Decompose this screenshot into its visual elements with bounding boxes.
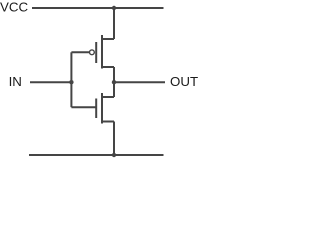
transistor M2 NMOS xyxy=(96,93,114,124)
junction VCC node xyxy=(112,6,116,10)
svg-text:IN: IN xyxy=(9,74,22,89)
wire VCC rail xyxy=(32,7,164,9)
wire gate bus vertical xyxy=(70,52,72,107)
wire NMOS gate lead xyxy=(71,106,95,108)
wire PMOS gate lead xyxy=(71,51,89,53)
wire IN lead xyxy=(30,81,72,83)
transistor M1 PMOS xyxy=(90,35,115,69)
wire PMOS source to VCC rail xyxy=(113,8,115,39)
svg-text:VCC: VCC xyxy=(0,0,28,15)
wire OUT lead xyxy=(114,81,165,83)
junction ground node xyxy=(112,153,116,157)
wire NMOS source to ground rail xyxy=(113,122,115,156)
svg-text:OUT: OUT xyxy=(170,74,198,89)
node IN junction xyxy=(69,80,73,84)
node OUT junction xyxy=(112,80,116,84)
wire ground rail xyxy=(29,154,164,156)
wire output vertical xyxy=(113,67,115,97)
